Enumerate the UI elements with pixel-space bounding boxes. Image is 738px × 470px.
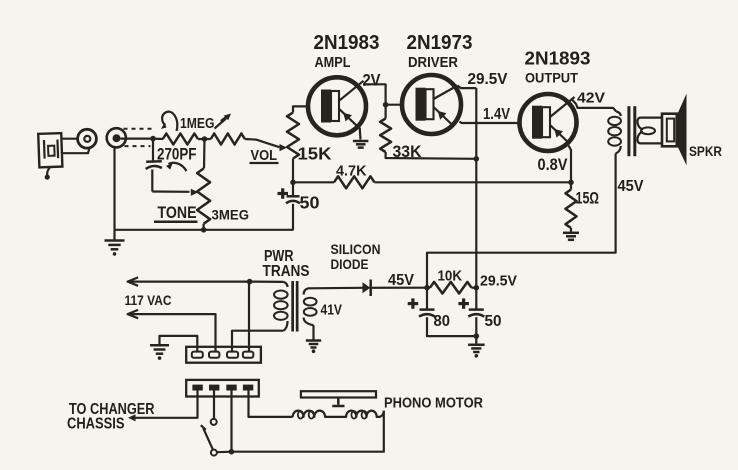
svg-text:10K: 10K [438, 268, 463, 284]
117VAC lead 1 (top) [128, 277, 250, 285]
resistor 10K [427, 282, 476, 294]
interlock plug (changer) [186, 380, 259, 397]
ground (preamp rail) [105, 230, 125, 256]
svg-text:45V: 45V [618, 178, 645, 195]
shield dashed line (lower) [125, 145, 151, 147]
wire diode to 45V node [371, 287, 427, 289]
plus sign for 50uF [278, 188, 289, 199]
svg-text:SPKR: SPKR [689, 144, 722, 159]
input jack J1 [107, 128, 126, 147]
svg-text:TRANS: TRANS [263, 263, 310, 280]
output transformer T2 core [627, 106, 636, 156]
wire Q1 emitter to ground [359, 128, 362, 140]
ground (15 ohm) [563, 233, 579, 240]
phono cartridge pickup [38, 133, 63, 180]
wire socket lug2 stub [214, 348, 216, 352]
resistor 4.7K [293, 176, 375, 188]
wire Q1 collector to 2V corner [364, 84, 386, 104]
117VAC lead 2 (bottom) [128, 310, 216, 348]
wire T1 secondary bottom to ground [312, 325, 314, 339]
wire cartridge to plug (top lead) [62, 138, 79, 140]
plug lug 3 [226, 385, 236, 391]
VOL wiper arrowhead into 15K [280, 144, 288, 151]
potentiometer 3MEG (TONE) [197, 169, 210, 224]
ground (power supply) [468, 336, 485, 357]
power transformer T1 primary [274, 282, 288, 331]
wire T2 primary bottom to 45V rail [427, 154, 616, 288]
wire node to Q2 base [386, 104, 403, 106]
svg-text:80: 80 [434, 313, 451, 330]
wire jack to 270PF node [121, 138, 154, 140]
svg-text:2V: 2V [363, 70, 382, 89]
resistor VOL series section [211, 134, 245, 145]
node: 29.5V [474, 285, 480, 291]
svg-text:1MEG: 1MEG [180, 116, 215, 132]
wire Q3 emitter drop [569, 146, 572, 183]
wire cartridge to plug (bottom lead) [62, 148, 90, 153]
svg-text:TONE: TONE [158, 203, 197, 222]
svg-text:AMPL: AMPL [315, 54, 351, 71]
svg-text:OUTPUT: OUTPUT [525, 71, 579, 86]
svg-text:1.4V: 1.4V [483, 106, 510, 123]
wiper curl arrow on 1MEG [162, 112, 177, 131]
wire T1 primary bottom to interlock pin 3 [232, 331, 284, 348]
wire 3MEG bottom to rail [203, 224, 205, 230]
potentiometer 15K (VOL) [287, 113, 299, 159]
power transformer T1 core [291, 281, 298, 332]
node: 3MEG to ground rail [201, 227, 207, 233]
diode D1 [363, 280, 371, 297]
ground (Q1 emitter) [353, 141, 369, 148]
wire to VOL wiper arrow [245, 139, 280, 147]
node: 15K / 50uF / 4.7K junction [290, 180, 296, 186]
svg-text:41V: 41V [321, 302, 343, 318]
svg-text:42V: 42V [577, 90, 605, 106]
node: 33K bottom / Q2 collector [474, 156, 480, 162]
switch pivot contact [211, 450, 217, 456]
phono plug P1 [78, 129, 97, 148]
plus sign for 50uF supply [458, 298, 469, 308]
svg-text:VOL: VOL [251, 148, 278, 164]
wire T1 secondary top to diode [308, 287, 363, 290]
plug lug 2 [209, 385, 219, 391]
plug lug 1 [192, 385, 202, 391]
svg-text:2N1973: 2N1973 [407, 32, 473, 54]
svg-text:117 VAC: 117 VAC [125, 292, 172, 308]
transistor Q2 2N1973 [402, 75, 461, 134]
svg-text:270PF: 270PF [157, 145, 197, 163]
wire 15K bottom to feedback node [292, 159, 294, 183]
wire node to 1MEG [153, 138, 163, 141]
socket lug 4 [243, 352, 253, 358]
ground (T1 secondary) [306, 341, 321, 354]
svg-text:15Ω: 15Ω [576, 190, 600, 208]
switch fixed contact [211, 419, 217, 425]
resistor 1MEG [163, 134, 198, 145]
svg-text:DRIVER: DRIVER [408, 54, 458, 71]
TONE wiper wire [152, 190, 189, 193]
shield dashed line (upper) [124, 128, 155, 130]
output transformer T2 primary [608, 112, 621, 154]
svg-text:2N1983: 2N1983 [314, 32, 380, 54]
wire Q2 collector rail down to supply [475, 88, 477, 288]
wire plug lug1 to changer chassis arrow [128, 391, 198, 422]
svg-text:SILICON: SILICON [331, 242, 381, 257]
socket lug 3 [227, 352, 238, 358]
svg-text:CHASSIS: CHASSIS [67, 416, 125, 433]
svg-text:50: 50 [300, 193, 320, 213]
svg-text:0.8V: 0.8V [538, 155, 569, 174]
svg-text:29.5V: 29.5V [480, 273, 517, 289]
svg-text:DIODE: DIODE [331, 257, 369, 272]
diagonal wiper arrow right of 1MEG label [215, 116, 229, 129]
wire Q3 collector to output transformer [572, 100, 616, 112]
plus sign for 80uF [408, 298, 419, 308]
node: 1MEG / VOL-series / 3MEG junction [202, 136, 208, 142]
capacitor 270PF [146, 139, 162, 192]
plug lug 4 [243, 385, 253, 391]
wire bottom run to motor [217, 411, 384, 452]
wire plug lug4 to motor coil [249, 391, 293, 417]
ground (interlock) [150, 345, 169, 360]
transistor Q3 2N1893 [520, 94, 577, 151]
node: lug3 / bottom run [229, 449, 235, 455]
wire plug lug3 to bottom run [230, 391, 232, 452]
curl arrow near 270PF [169, 163, 187, 171]
T2 secondary / voice coil loop [637, 118, 662, 144]
capacitor 80uF [419, 288, 476, 336]
node: Q3 emitter / 4.7K / 15ohm [568, 180, 574, 186]
wire feedback rail to 15ohm node [375, 181, 572, 183]
wire socket lug4 to lead1 [248, 282, 250, 352]
svg-text:3MEG: 3MEG [212, 206, 250, 222]
node: 45V [424, 285, 430, 291]
svg-text:15K: 15K [298, 144, 332, 164]
socket lug 2 [209, 352, 219, 358]
socket lug 1 [192, 352, 203, 358]
wire plug lug2 to switch contact [213, 391, 215, 419]
svg-text:PHONO MOTOR: PHONO MOTOR [384, 395, 483, 411]
TONE wiper arrowhead into 3MEG [191, 189, 199, 196]
resistor 33K [380, 105, 476, 159]
node: jack hot / 270PF junction [150, 136, 156, 142]
T1 secondary [304, 288, 317, 325]
phono motor coil M1 [293, 411, 384, 419]
wire Q2 emitter to Q3 base [460, 122, 520, 124]
svg-text:29.5V: 29.5V [468, 71, 509, 88]
node: supply caps to ground [474, 333, 480, 339]
turntable platter [301, 391, 376, 397]
interlock socket (chassis) [186, 347, 261, 363]
wire Q2 collector to 29.5V drop [458, 86, 477, 89]
switch blade S1 [201, 425, 213, 450]
platter spindle [332, 398, 344, 407]
svg-text:2N1893: 2N1893 [525, 48, 591, 69]
wire socket lug3 stub [231, 348, 233, 352]
transistor Q1 2N1983 [308, 77, 366, 135]
capacitor 50uF (preamp) [286, 182, 300, 230]
wire node to 3MEG top [203, 139, 206, 169]
wire preamp ground rail [115, 229, 294, 231]
wire 15K top to AMPL base [293, 106, 309, 112]
wire socket lug1 to ground [160, 336, 198, 352]
node: lead1 / interlock pin 4 [247, 279, 253, 285]
wire jack ground drop [113, 147, 115, 230]
svg-text:45V: 45V [388, 272, 415, 289]
svg-text:50: 50 [485, 313, 502, 330]
capacitor 50uF (supply) [468, 288, 484, 336]
wire lead1 to T1 primary [250, 281, 284, 283]
svg-text:4.7K: 4.7K [336, 162, 367, 179]
svg-text:33K: 33K [393, 142, 423, 161]
speaker SPKR [662, 94, 687, 166]
resistor 15 ohm [566, 182, 577, 231]
node: Q1 collector / Q2 base / 33K [383, 102, 389, 108]
